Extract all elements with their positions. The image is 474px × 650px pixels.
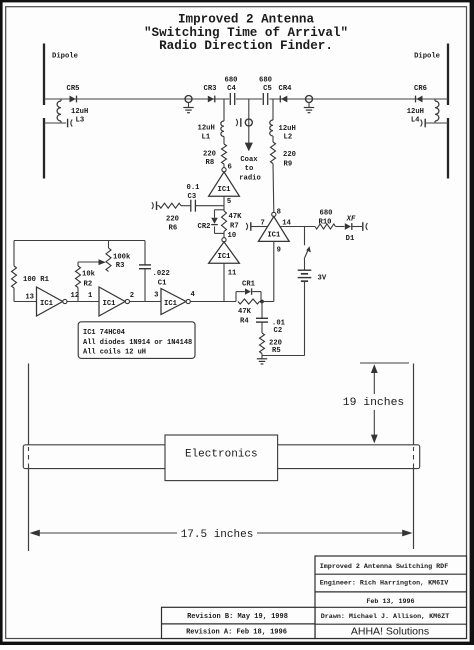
svg-text:Improved 2 Antenna: Improved 2 Antenna bbox=[178, 13, 314, 27]
svg-text:R6: R6 bbox=[169, 224, 178, 232]
diode CR5 bbox=[67, 85, 80, 102]
battery BT1 3V bbox=[298, 259, 327, 283]
wire: R10 to D1 bbox=[336, 226, 345, 228]
inductor L3 12uH bbox=[57, 99, 88, 125]
svg-text:Feb 13, 1996: Feb 13, 1996 bbox=[366, 598, 414, 606]
mechanical: electronics box bbox=[165, 435, 278, 481]
capacitor C5 680 bbox=[259, 76, 272, 105]
svg-text:All diodes 1N914 or 1N4148: All diodes 1N914 or 1N4148 bbox=[83, 339, 192, 347]
connector jack coax bbox=[236, 118, 241, 127]
inductor L2 12uH bbox=[270, 120, 296, 142]
svg-text:100 R1: 100 R1 bbox=[23, 276, 50, 284]
svg-text:CR4: CR4 bbox=[279, 85, 293, 93]
svg-text:10k: 10k bbox=[82, 271, 96, 279]
resistor R8 220 bbox=[203, 144, 227, 167]
wire: battery branch from pin14 node bbox=[304, 227, 306, 246]
svg-text:Dipole: Dipole bbox=[52, 53, 78, 61]
svg-text:CR1: CR1 bbox=[242, 280, 256, 288]
wire: right dipole lower feed bbox=[426, 122, 448, 124]
svg-text:AHHA! Solutions: AHHA! Solutions bbox=[351, 626, 429, 638]
svg-text:R5: R5 bbox=[272, 347, 281, 355]
connector plug coax bbox=[245, 119, 252, 126]
op-amp U6 inverter IC1 pins 3-4 bbox=[154, 289, 195, 315]
potentiometer wiper arrow into R3 bbox=[99, 259, 106, 265]
wire: R5 to ground node bbox=[261, 354, 263, 357]
svg-text:radio: radio bbox=[239, 174, 261, 182]
svg-text:D1: D1 bbox=[346, 235, 355, 243]
resistor R2 10k bbox=[76, 266, 96, 288]
mechanical: left antenna element bbox=[28, 364, 30, 552]
wire: network to gate output 10 bbox=[223, 232, 225, 238]
svg-text:to: to bbox=[245, 165, 254, 173]
wire: R4 to node bbox=[260, 301, 263, 303]
dimension arrow 17.5 inches bbox=[30, 529, 413, 541]
svg-text:.01: .01 bbox=[272, 319, 286, 327]
resistor R6 220 bbox=[159, 203, 181, 232]
capacitor C4 680 bbox=[225, 76, 238, 105]
svg-text:3V: 3V bbox=[318, 274, 327, 282]
capacitor C2 .01 bbox=[256, 318, 286, 335]
svg-text:Drawn: Michael J. Allison, KM6: Drawn: Michael J. Allison, KM6ZT bbox=[321, 613, 449, 621]
op-amp U3 inverter IC1 pins 9-8 bbox=[258, 209, 291, 255]
svg-text:C3: C3 bbox=[188, 193, 197, 201]
svg-text:Electronics: Electronics bbox=[185, 448, 258, 460]
svg-text:CR2: CR2 bbox=[198, 223, 211, 231]
wire: CR2 branch loop bbox=[215, 210, 225, 234]
svg-text:L2: L2 bbox=[284, 134, 293, 142]
wire: pin 9 stem bbox=[273, 241, 275, 301]
svg-text:C1: C1 bbox=[158, 279, 167, 287]
svg-text:6: 6 bbox=[228, 163, 232, 171]
wire: bus junction to L1 bbox=[223, 99, 225, 121]
diode CR6 bbox=[414, 85, 427, 102]
wire: pin2 to pin3 bbox=[130, 301, 162, 303]
svg-text:.022: .022 bbox=[153, 270, 170, 278]
svg-text:3: 3 bbox=[154, 291, 158, 299]
svg-text:R3: R3 bbox=[116, 262, 125, 270]
svg-text:10: 10 bbox=[228, 232, 237, 240]
op-amp U5 inverter IC1 pins 1-2 bbox=[88, 287, 134, 316]
svg-text:Coax: Coax bbox=[240, 156, 258, 164]
wire: left dipole lower feed bbox=[44, 122, 66, 124]
svg-text:C4: C4 bbox=[227, 85, 236, 93]
svg-text:R9: R9 bbox=[284, 161, 293, 169]
resistor R1 100 bbox=[12, 266, 50, 288]
wire: pin4 output rail bbox=[190, 301, 236, 303]
wire: pin12 to pin1 bbox=[67, 301, 99, 303]
svg-text:IC1: IC1 bbox=[164, 300, 178, 308]
coax to radio arrow bbox=[239, 143, 261, 183]
svg-text:12uH: 12uH bbox=[407, 108, 424, 116]
capacitor C1 .022 bbox=[139, 241, 170, 302]
op-amp U1 inverter IC1 pins 5-6 bbox=[209, 163, 240, 206]
inductor L4 12uH bbox=[407, 99, 439, 125]
svg-text:11: 11 bbox=[228, 270, 237, 278]
wire: pin5 node to C3 bbox=[196, 205, 224, 207]
mechanical: antenna boom bbox=[23, 445, 419, 469]
svg-text:CR5: CR5 bbox=[67, 85, 80, 93]
svg-text:47K: 47K bbox=[229, 213, 243, 221]
capacitor C3 0.1 bbox=[187, 184, 201, 212]
antenna left dipole upper element bbox=[44, 44, 78, 106]
connector jack earphone XF bbox=[363, 222, 368, 231]
title block bbox=[162, 556, 467, 639]
inductor L1 12uH bbox=[198, 121, 225, 141]
svg-text:IC1: IC1 bbox=[218, 253, 232, 261]
svg-text:12uH: 12uH bbox=[71, 108, 88, 116]
ground connector right bbox=[304, 96, 314, 113]
wire: R1 to pin13 bbox=[14, 288, 37, 302]
connector jack audio in bbox=[152, 201, 157, 210]
svg-text:680: 680 bbox=[259, 76, 272, 84]
wire: bus junction to L2 bbox=[272, 99, 274, 120]
wire: D1 to output jack bbox=[353, 226, 363, 228]
dimension arrow 19 inches bbox=[343, 364, 405, 443]
svg-text:19 inches: 19 inches bbox=[343, 397, 405, 409]
svg-text:R7: R7 bbox=[230, 223, 239, 231]
svg-text:XF: XF bbox=[346, 216, 356, 224]
wire: pin5 to parallel network bbox=[223, 206, 225, 211]
svg-text:L1: L1 bbox=[202, 133, 211, 141]
connector jack pin7 bbox=[246, 222, 251, 231]
wire: R2 bottom to rail bbox=[77, 288, 79, 302]
svg-text:4: 4 bbox=[191, 291, 196, 299]
svg-text:Radio Direction Finder.: Radio Direction Finder. bbox=[159, 39, 333, 53]
wire: C3 to R6 bbox=[181, 205, 191, 207]
svg-text:5: 5 bbox=[227, 198, 231, 206]
wire: gate input 11 stem bbox=[223, 263, 225, 301]
wire: CR1 loop bbox=[236, 292, 261, 302]
svg-text:R2: R2 bbox=[84, 280, 93, 288]
svg-text:L4: L4 bbox=[411, 117, 420, 125]
svg-text:680: 680 bbox=[225, 76, 238, 84]
svg-text:IC1: IC1 bbox=[103, 300, 117, 308]
svg-text:47K: 47K bbox=[238, 308, 252, 316]
svg-text:IC1 74HC04: IC1 74HC04 bbox=[83, 329, 125, 337]
svg-text:9: 9 bbox=[277, 247, 281, 255]
wire: oscillator left leg bbox=[13, 241, 15, 267]
svg-text:"Switching Time of Arrival": "Switching Time of Arrival" bbox=[144, 26, 348, 40]
svg-text:CR3: CR3 bbox=[204, 85, 217, 93]
svg-text:100k: 100k bbox=[113, 254, 131, 262]
antenna left dipole lower element bbox=[43, 118, 45, 179]
svg-text:Engineer: Rich Harrington, KM6: Engineer: Rich Harrington, KM6IV bbox=[320, 579, 448, 587]
svg-text:Revision A: Feb 18, 1996: Revision A: Feb 18, 1996 bbox=[186, 629, 287, 637]
antenna right dipole upper element bbox=[414, 44, 448, 106]
svg-text:IC1: IC1 bbox=[267, 232, 281, 240]
svg-text:17.5 inches: 17.5 inches bbox=[181, 529, 254, 541]
svg-text:220: 220 bbox=[283, 151, 296, 159]
svg-text:0.1: 0.1 bbox=[187, 184, 201, 192]
svg-text:Dipole: Dipole bbox=[414, 53, 440, 61]
wire: R9 to gate output 8 bbox=[272, 164, 275, 213]
svg-text:220: 220 bbox=[203, 151, 216, 159]
svg-text:2: 2 bbox=[130, 292, 134, 300]
wire: pin 7 stub bbox=[252, 226, 268, 228]
svg-text:R10: R10 bbox=[319, 218, 332, 226]
wire: battery negative to ground rail bbox=[262, 281, 305, 355]
mechanical: 19 inch extension line bbox=[360, 362, 409, 364]
svg-text:8: 8 bbox=[277, 209, 281, 217]
connector jack right dipole bbox=[421, 119, 426, 128]
ground connector left bbox=[183, 96, 193, 113]
svg-text:R8: R8 bbox=[206, 159, 215, 167]
svg-text:All coils 12 uH: All coils 12 uH bbox=[83, 349, 146, 357]
wire: R6 to jack bbox=[157, 205, 159, 207]
ground bbox=[257, 356, 267, 364]
wire: C2 to R5 bbox=[261, 322, 263, 333]
svg-text:13: 13 bbox=[25, 294, 34, 302]
resistor R3 100k bbox=[106, 241, 131, 272]
connector jack left dipole bbox=[68, 119, 73, 128]
svg-text:Improved 2 Antenna Switching R: Improved 2 Antenna Switching RDF bbox=[320, 563, 448, 571]
op-amp U4 inverter IC1 pins 13-12 bbox=[25, 287, 79, 316]
svg-text:IC1: IC1 bbox=[218, 186, 232, 194]
svg-text:C5: C5 bbox=[263, 85, 272, 93]
notes box bbox=[78, 322, 195, 359]
wire: node down to C2 bbox=[261, 302, 263, 319]
op-amp U2 inverter IC1 pins 11-10 bbox=[209, 232, 240, 278]
mechanical: right antenna element bbox=[413, 364, 415, 550]
svg-text:C2: C2 bbox=[274, 327, 283, 335]
wire: coax tap from bus bbox=[248, 99, 250, 143]
schematic title bbox=[144, 13, 348, 54]
wire: L2 to R9 bbox=[272, 136, 274, 142]
diode CR1 bbox=[242, 280, 256, 295]
wire: R8 to gate output 6 bbox=[223, 164, 225, 168]
svg-text:1: 1 bbox=[88, 292, 93, 300]
switch S1 bbox=[304, 246, 311, 259]
diode CR4 bbox=[279, 85, 293, 102]
svg-text:220: 220 bbox=[166, 215, 179, 223]
wire: R2 wiper line bbox=[78, 262, 99, 266]
wire: L1 to R8 bbox=[223, 137, 225, 145]
resistor R7 47K bbox=[222, 211, 243, 232]
wire: oscillator top rail bbox=[14, 240, 145, 242]
resistor R10 680 bbox=[315, 210, 336, 229]
svg-text:12uH: 12uH bbox=[279, 125, 296, 133]
resistor R9 220 bbox=[271, 142, 296, 169]
svg-text:CR6: CR6 bbox=[414, 85, 427, 93]
wire: main horizontal bus bbox=[44, 98, 448, 100]
svg-text:680: 680 bbox=[320, 210, 333, 218]
diode CR3 bbox=[204, 85, 217, 102]
svg-text:R4: R4 bbox=[240, 317, 249, 325]
node: timing junction bbox=[260, 300, 264, 304]
wire: pin 14 to battery node bbox=[280, 226, 315, 228]
svg-text:IC1: IC1 bbox=[40, 300, 54, 308]
wire: node to pin 9 riser bbox=[262, 301, 274, 303]
diode D1 bbox=[345, 216, 356, 244]
svg-text:Revision B: May 19, 1998: Revision B: May 19, 1998 bbox=[187, 613, 288, 621]
diode CR2 bbox=[198, 218, 218, 231]
resistor R5 220 bbox=[260, 333, 282, 355]
svg-text:12uH: 12uH bbox=[198, 124, 215, 132]
wire: gate input 5 stem bbox=[223, 196, 225, 206]
resistor R4 47K bbox=[238, 299, 260, 325]
antenna right dipole lower element bbox=[447, 118, 449, 179]
svg-text:L3: L3 bbox=[76, 117, 85, 125]
